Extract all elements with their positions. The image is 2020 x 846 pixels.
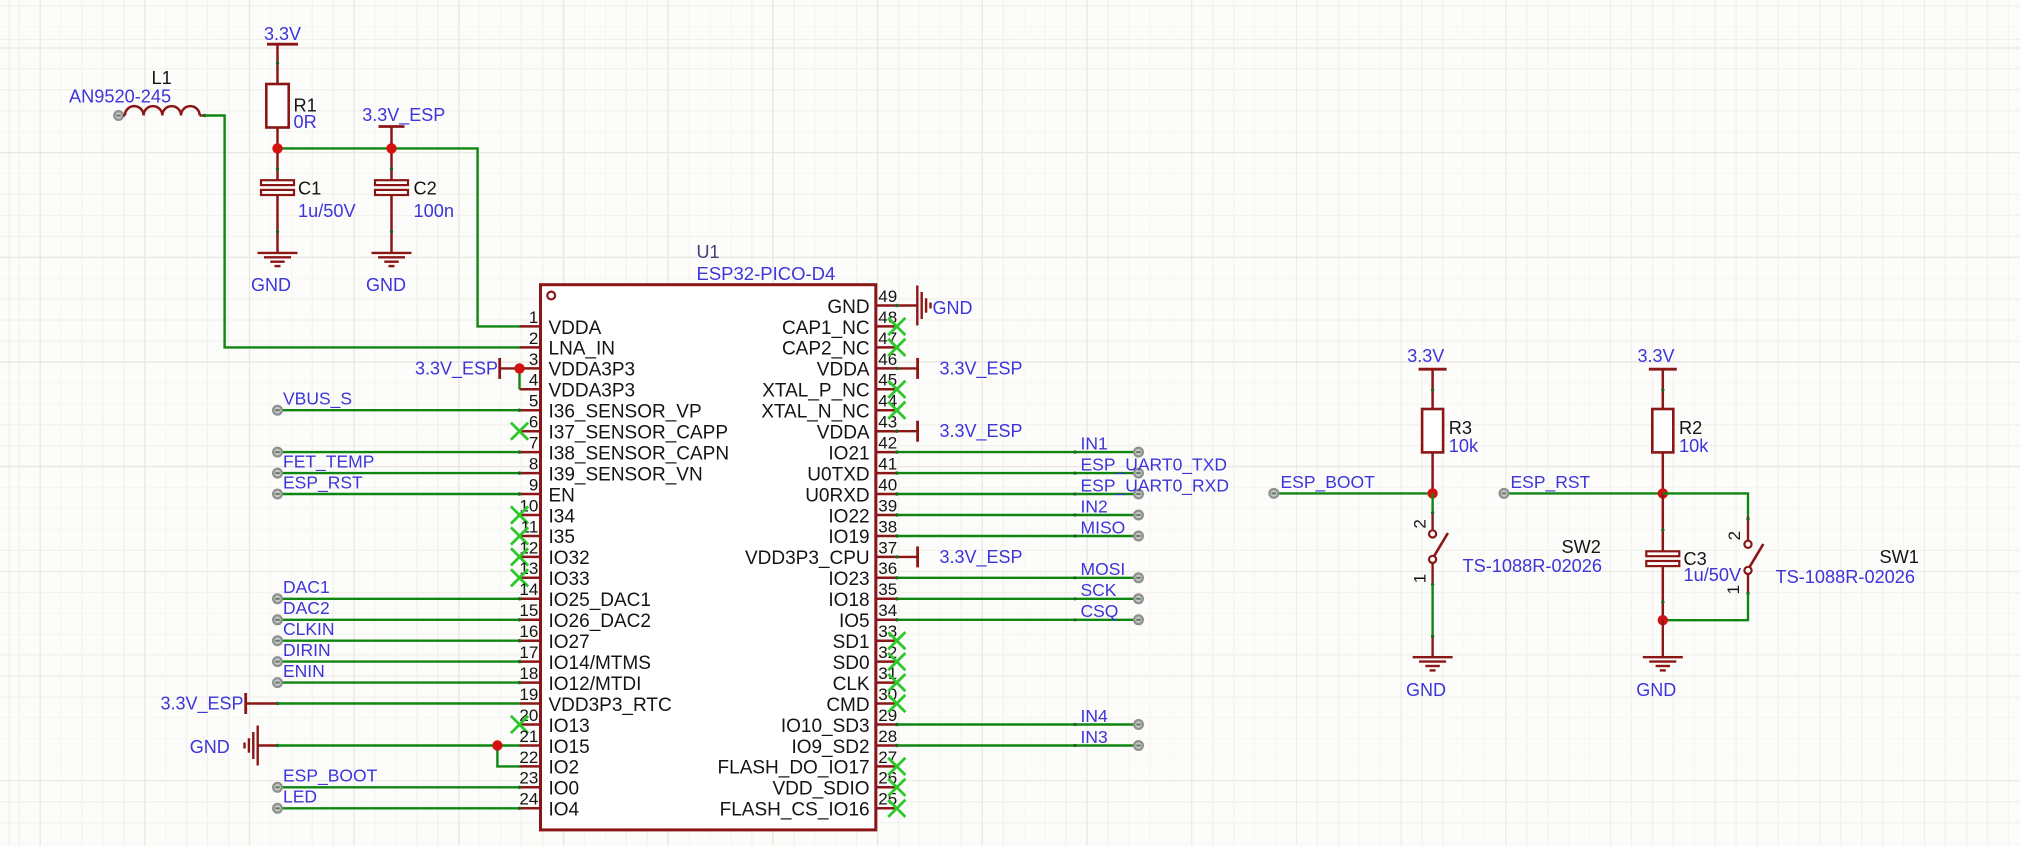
svg-text:0R: 0R — [294, 112, 317, 132]
net label DIRIN — [283, 640, 331, 660]
net label IN3 — [1081, 727, 1108, 747]
svg-text:TS-1088R-02026: TS-1088R-02026 — [1776, 567, 1916, 587]
svg-text:IO18: IO18 — [828, 590, 869, 611]
U1 pin 16 IO27 — [519, 622, 589, 653]
net label ESP_RST — [283, 472, 363, 493]
IC U1 body — [541, 285, 876, 830]
junction node (C3/SW1 bottom) — [1658, 615, 1668, 625]
svg-text:AN9520-245: AN9520-245 — [69, 87, 171, 107]
svg-text:VDD3P3_RTC: VDD3P3_RTC — [549, 695, 672, 716]
wire CSQ (pin 34) — [895, 615, 1143, 624]
net label CLKIN — [283, 619, 335, 639]
U1 pin 46 VDDA — [817, 350, 897, 381]
inductor L1 — [69, 68, 206, 120]
no-connect pin 27 — [888, 758, 905, 775]
wire CLKIN (pin 16) — [273, 636, 521, 645]
power flag 3.3V (R1 top) — [264, 24, 301, 84]
svg-text:DIRIN: DIRIN — [283, 640, 331, 660]
svg-text:FLASH_DO_IO17: FLASH_DO_IO17 — [718, 758, 870, 779]
svg-text:DAC1: DAC1 — [283, 577, 330, 597]
no-connect pin 20 — [511, 716, 528, 733]
U1 pin 43 VDDA — [817, 413, 897, 444]
svg-text:IO9_SD2: IO9_SD2 — [791, 737, 869, 758]
no-connect pin 13 — [511, 569, 528, 586]
wire DAC2 (pin 15) — [273, 615, 521, 624]
no-connect pin 25 — [888, 800, 905, 817]
svg-text:ESP_BOOT: ESP_BOOT — [283, 766, 378, 787]
SW1 designator — [1880, 547, 1919, 567]
wire SW1 to ground node — [1663, 593, 1748, 620]
svg-text:CSQ: CSQ — [1081, 601, 1119, 621]
wire DAC1 (pin 14) — [273, 594, 521, 603]
wire GND branch to pin 22 — [497, 746, 519, 767]
ground flag GND (pin 21) — [190, 726, 280, 766]
svg-text:3.3V_ESP: 3.3V_ESP — [415, 358, 498, 379]
svg-text:VDDA: VDDA — [549, 318, 602, 339]
U1 pin 7 I38_SENSOR_CAPN — [520, 434, 730, 465]
svg-text:CLK: CLK — [833, 674, 870, 695]
U1 pin 47 CAP2_NC — [782, 329, 897, 360]
resistor R2 — [1652, 409, 1709, 456]
wire ESP_BOOT (pin 23) — [273, 783, 521, 792]
U1 part name ESP32-PICO-D4 — [697, 263, 836, 284]
power flag 3.3V (R2 top) — [1637, 346, 1676, 409]
svg-text:3.3V_ESP: 3.3V_ESP — [940, 547, 1023, 568]
power flag 3.3V_ESP (pin 37) — [895, 546, 1022, 568]
svg-text:IO21: IO21 — [828, 443, 869, 464]
net label ENIN — [283, 661, 325, 681]
capacitor C1 — [261, 148, 357, 253]
net label IN4 — [1081, 706, 1109, 726]
svg-text:2: 2 — [1411, 519, 1430, 528]
U1 pin 38 IO19 — [828, 517, 897, 548]
U1 pin 12 IO32 — [519, 538, 589, 569]
svg-text:GND: GND — [1406, 680, 1446, 700]
wire VBUS_S (pin 5) — [273, 406, 521, 415]
svg-text:SD1: SD1 — [833, 632, 870, 653]
svg-text:EN: EN — [549, 485, 575, 506]
svg-text:CAP1_NC: CAP1_NC — [782, 318, 870, 339]
svg-text:GND: GND — [251, 275, 291, 295]
svg-text:L1: L1 — [152, 68, 172, 88]
svg-text:FLASH_CS_IO16: FLASH_CS_IO16 — [720, 800, 870, 821]
svg-text:IO4: IO4 — [549, 800, 580, 821]
wire R2 to node — [1662, 452, 1665, 493]
wire pin 7 — [273, 448, 521, 457]
svg-text:19: 19 — [519, 685, 538, 704]
U1 pin 41 U0TXD — [807, 455, 897, 486]
net label DAC2 — [283, 598, 330, 618]
svg-text:9: 9 — [529, 475, 538, 494]
U1 pin 18 IO12/MTDI — [519, 664, 641, 695]
svg-text:VDD3P3_CPU: VDD3P3_CPU — [745, 548, 870, 569]
wire DIRIN (pin 17) — [273, 657, 521, 666]
wire LED (pin 24) — [273, 804, 521, 813]
wire SW2 to ground — [1431, 584, 1434, 657]
wire IN3 (pin 28) — [895, 741, 1143, 750]
U1 pin 39 IO22 — [828, 496, 897, 527]
svg-text:ESP_UART0_TXD: ESP_UART0_TXD — [1081, 455, 1228, 476]
svg-text:14: 14 — [519, 580, 538, 599]
svg-text:18: 18 — [519, 664, 538, 683]
wire MISO (pin 38) — [895, 532, 1143, 541]
SW1 part TS-1088R-02026 — [1776, 567, 1916, 587]
svg-text:2: 2 — [529, 329, 538, 348]
no-connect pin 30 — [888, 695, 905, 712]
svg-text:VDDA3P3: VDDA3P3 — [549, 381, 636, 402]
svg-text:1: 1 — [1724, 585, 1743, 594]
U1 pin 35 IO18 — [828, 580, 897, 611]
svg-text:IO22: IO22 — [828, 506, 869, 527]
svg-text:I36_SENSOR_VP: I36_SENSOR_VP — [549, 402, 702, 423]
svg-text:100n: 100n — [414, 201, 454, 221]
svg-text:38: 38 — [878, 517, 897, 536]
svg-text:17: 17 — [519, 643, 538, 662]
svg-text:GND: GND — [1636, 680, 1676, 700]
svg-text:VDDA3P3: VDDA3P3 — [549, 360, 636, 381]
U1 pin 23 IO0 — [519, 769, 579, 800]
svg-text:GND: GND — [366, 275, 406, 295]
svg-text:IN4: IN4 — [1081, 706, 1109, 726]
svg-text:10k: 10k — [1449, 436, 1479, 456]
svg-text:GND: GND — [190, 737, 230, 757]
svg-text:35: 35 — [878, 580, 897, 599]
svg-text:C2: C2 — [414, 179, 437, 199]
svg-text:CLKIN: CLKIN — [283, 619, 335, 639]
switch SW2 — [1411, 493, 1448, 586]
ground (SW1/C3) — [1636, 657, 1683, 700]
no-connect pin 10 — [511, 506, 528, 523]
U1 pin 28 IO9_SD2 — [791, 727, 897, 758]
wire ESP_UART0_TXD (pin 41) — [895, 469, 1143, 478]
svg-text:VDD_SDIO: VDD_SDIO — [772, 779, 869, 800]
capacitor C2 — [375, 148, 454, 253]
U1 pin 22 IO2 — [519, 748, 579, 779]
SW2 part TS-1088R-02026 — [1463, 556, 1603, 576]
svg-text:22: 22 — [519, 748, 538, 767]
wire node to SW1 — [1663, 493, 1748, 515]
svg-text:IO32: IO32 — [549, 548, 590, 569]
wire IN4 (pin 29) — [895, 720, 1143, 729]
net label ESP_RST — [1511, 472, 1591, 493]
svg-text:SD0: SD0 — [833, 653, 870, 674]
wire ESP_UART0_RXD (pin 40) — [895, 490, 1143, 499]
svg-text:ESP_UART0_RXD: ESP_UART0_RXD — [1081, 475, 1230, 496]
svg-text:5: 5 — [529, 392, 538, 411]
capacitor C3 — [1646, 493, 1742, 620]
U1 pin 13 IO33 — [519, 559, 589, 590]
svg-text:I37_SENSOR_CAPP: I37_SENSOR_CAPP — [549, 423, 729, 444]
svg-text:37: 37 — [878, 538, 897, 557]
U1 pin 5 I36_SENSOR_VP — [520, 392, 702, 423]
svg-text:ESP32-PICO-D4: ESP32-PICO-D4 — [697, 263, 836, 284]
svg-text:23: 23 — [519, 769, 538, 788]
U1 pin 45 XTAL_P_NC — [762, 371, 897, 402]
svg-text:SW2: SW2 — [1562, 537, 1601, 557]
svg-text:1u/50V: 1u/50V — [298, 201, 357, 221]
svg-text:IO14/MTMS: IO14/MTMS — [549, 653, 651, 674]
svg-text:24: 24 — [519, 790, 538, 809]
svg-text:XTAL_N_NC: XTAL_N_NC — [761, 402, 869, 423]
svg-text:MISO: MISO — [1081, 517, 1126, 537]
wire R1 bottom to node — [276, 128, 279, 149]
svg-text:3.3V: 3.3V — [1407, 346, 1444, 366]
wire L1 to U1 pin 2 (LNA_IN) — [205, 116, 520, 348]
net label SCK — [1081, 580, 1117, 600]
svg-text:TS-1088R-02026: TS-1088R-02026 — [1463, 556, 1603, 576]
wire GND to pin 21 — [278, 744, 520, 746]
svg-text:VDDA: VDDA — [817, 423, 870, 444]
svg-text:ESP_RST: ESP_RST — [1511, 472, 1591, 493]
svg-text:IO0: IO0 — [549, 779, 580, 800]
no-connect pin 31 — [888, 674, 905, 691]
svg-text:29: 29 — [878, 706, 897, 725]
svg-text:ESP_BOOT: ESP_BOOT — [1281, 472, 1376, 493]
wire ESP_BOOT — [1269, 489, 1432, 498]
svg-text:3.3V_ESP: 3.3V_ESP — [160, 694, 243, 715]
svg-text:46: 46 — [878, 350, 897, 369]
net label DAC1 — [283, 577, 330, 597]
U1 pin 2 LNA_IN — [520, 329, 616, 360]
svg-text:GND: GND — [827, 297, 869, 318]
wire node to U1 pin 1 (VDDA) — [278, 148, 520, 326]
svg-text:I34: I34 — [549, 506, 576, 527]
no-connect pin 32 — [888, 653, 905, 670]
svg-text:16: 16 — [519, 622, 538, 641]
svg-text:I39_SENSOR_VN: I39_SENSOR_VN — [549, 464, 703, 485]
svg-text:IO12/MTDI: IO12/MTDI — [549, 674, 642, 695]
net label ESP_UART0_RXD — [1081, 475, 1230, 496]
svg-text:U0TXD: U0TXD — [807, 464, 869, 485]
U1 pin 20 IO13 — [519, 706, 589, 737]
svg-text:3.3V: 3.3V — [264, 24, 301, 44]
U1 pin 48 CAP1_NC — [782, 308, 897, 339]
wire node to ground — [1662, 620, 1664, 657]
U1 pin 14 IO25_DAC1 — [519, 580, 651, 611]
svg-text:1: 1 — [529, 308, 538, 327]
svg-text:3: 3 — [529, 350, 538, 369]
svg-text:41: 41 — [878, 455, 897, 474]
svg-text:U0RXD: U0RXD — [805, 485, 869, 506]
svg-text:ESP_RST: ESP_RST — [283, 472, 363, 493]
no-connect pin 33 — [888, 632, 905, 649]
svg-text:3.3V_ESP: 3.3V_ESP — [940, 421, 1023, 442]
SW2 designator — [1562, 537, 1601, 557]
svg-text:CMD: CMD — [826, 695, 869, 716]
svg-text:6: 6 — [529, 413, 538, 432]
net label LED — [283, 787, 317, 807]
net label VBUS_S — [283, 389, 352, 410]
U1 pin 15 IO26_DAC2 — [519, 601, 651, 632]
svg-text:3.3V_ESP: 3.3V_ESP — [940, 358, 1023, 379]
no-connect pin 44 — [888, 402, 905, 419]
svg-text:8: 8 — [529, 455, 538, 474]
svg-text:ENIN: ENIN — [283, 661, 325, 681]
U1 pin 34 IO5 — [839, 601, 897, 632]
resistor R3 — [1422, 409, 1479, 456]
U1 pin 3 VDDA3P3 — [520, 350, 636, 381]
no-connect pin 47 — [888, 339, 905, 356]
no-connect pin 12 — [511, 548, 528, 565]
svg-text:3.3V_ESP: 3.3V_ESP — [362, 105, 445, 126]
svg-text:IO25_DAC1: IO25_DAC1 — [549, 590, 651, 611]
svg-text:C1: C1 — [298, 179, 321, 199]
no-connect pin 26 — [888, 779, 905, 796]
svg-text:7: 7 — [529, 434, 538, 453]
U1 pin 32 SD0 — [833, 643, 898, 674]
wire pin3 node to pin 4 — [518, 368, 520, 389]
U1 pin 44 XTAL_N_NC — [761, 392, 897, 423]
wire IN1 (pin 42) — [895, 448, 1143, 457]
svg-text:10k: 10k — [1679, 436, 1709, 456]
net label ESP_BOOT — [1281, 472, 1376, 493]
U1 pin 27 FLASH_DO_IO17 — [718, 748, 898, 779]
U1 pin 1 VDDA — [520, 308, 602, 339]
junction node (R2/C3/SW1) — [1658, 488, 1668, 498]
U1 pin 8 I39_SENSOR_VN — [520, 455, 703, 486]
svg-text:IO10_SD3: IO10_SD3 — [781, 716, 870, 737]
ground (C1) — [251, 253, 298, 295]
svg-text:34: 34 — [878, 601, 897, 620]
U1 pin 9 EN — [520, 475, 575, 506]
svg-text:IO26_DAC2: IO26_DAC2 — [549, 611, 651, 632]
U1 pin 49 GND — [827, 287, 897, 318]
junction node (pins 3/4) — [514, 363, 524, 373]
ground (SW2) — [1406, 657, 1453, 700]
U1 pin 29 IO10_SD3 — [781, 706, 897, 737]
no-connect pin 11 — [511, 527, 528, 544]
power flag 3.3V_ESP (pin 46) — [895, 358, 1022, 380]
svg-text:R2: R2 — [1679, 418, 1702, 438]
svg-text:GND: GND — [933, 298, 973, 318]
wire ESP_RST — [1500, 489, 1663, 498]
svg-text:IO15: IO15 — [549, 737, 590, 758]
U1 pin 19 VDD3P3_RTC — [519, 685, 671, 716]
net label MOSI — [1081, 559, 1126, 579]
U1 pin 4 VDDA3P3 — [520, 371, 636, 402]
svg-text:1: 1 — [1411, 574, 1430, 583]
net label FET_TEMP — [283, 452, 374, 473]
svg-text:1u/50V: 1u/50V — [1684, 565, 1743, 585]
svg-text:42: 42 — [878, 434, 897, 453]
wire pin 19 — [278, 702, 520, 704]
net label ESP_UART0_TXD — [1081, 455, 1228, 476]
U1 pin 26 VDD_SDIO — [772, 769, 897, 800]
U1 pin 31 CLK — [833, 664, 898, 695]
net label ESP_BOOT — [283, 766, 378, 787]
power flag 3.3V_ESP (pin 3) — [415, 358, 520, 380]
net label MISO — [1081, 517, 1126, 537]
wire ENIN (pin 18) — [273, 678, 521, 687]
wire R3 to node — [1431, 452, 1434, 493]
svg-text:IN1: IN1 — [1081, 434, 1108, 454]
svg-text:IO5: IO5 — [839, 611, 870, 632]
svg-text:IO19: IO19 — [828, 527, 869, 548]
svg-text:VDDA: VDDA — [817, 360, 870, 381]
wire FET_TEMP (pin 8) — [273, 469, 521, 478]
svg-text:U1: U1 — [697, 242, 720, 262]
svg-text:I35: I35 — [549, 527, 575, 548]
U1 pin 40 U0RXD — [805, 475, 897, 506]
resistor R1 — [266, 84, 316, 132]
svg-text:DAC2: DAC2 — [283, 598, 330, 618]
svg-text:IO27: IO27 — [549, 632, 590, 653]
U1 designator — [697, 242, 720, 262]
U1 pin 25 FLASH_CS_IO16 — [720, 790, 898, 821]
svg-text:4: 4 — [529, 371, 538, 390]
svg-text:R3: R3 — [1449, 418, 1472, 438]
U1 pin 17 IO14/MTMS — [519, 643, 651, 674]
ground (C2) — [366, 253, 412, 295]
svg-text:XTAL_P_NC: XTAL_P_NC — [762, 381, 869, 402]
svg-text:49: 49 — [878, 287, 897, 306]
wire SCK (pin 35) — [895, 594, 1143, 603]
no-connect pin 45 — [888, 381, 905, 398]
svg-text:21: 21 — [519, 727, 538, 746]
wire ESP_RST (pin 9) — [273, 490, 521, 499]
svg-text:VBUS_S: VBUS_S — [283, 389, 352, 410]
svg-text:LED: LED — [283, 787, 317, 807]
no-connect pin 48 — [888, 318, 905, 335]
svg-text:28: 28 — [878, 727, 897, 746]
wire IN2 (pin 39) — [895, 511, 1143, 520]
ground flag GND (pin 49) — [895, 286, 972, 326]
no-connect pin 6 — [511, 423, 528, 440]
junction node (R1/C1) — [272, 143, 282, 153]
U1 pin 21 IO15 — [519, 727, 589, 758]
U1 pin 11 I35 — [520, 517, 575, 548]
power flag 3.3V_ESP (pin 43) — [895, 421, 1022, 443]
svg-text:IO13: IO13 — [549, 716, 590, 737]
svg-text:2: 2 — [1725, 531, 1744, 540]
svg-text:IO33: IO33 — [549, 569, 590, 590]
svg-text:FET_TEMP: FET_TEMP — [283, 452, 374, 473]
U1 pin 36 IO23 — [828, 559, 897, 590]
svg-text:40: 40 — [878, 475, 897, 494]
svg-text:SW1: SW1 — [1880, 547, 1919, 567]
svg-text:IO2: IO2 — [549, 758, 580, 779]
U1 pin 30 CMD — [826, 685, 897, 716]
svg-text:LNA_IN: LNA_IN — [549, 339, 616, 360]
svg-text:IN2: IN2 — [1081, 496, 1108, 516]
svg-text:15: 15 — [519, 601, 538, 620]
net label CSQ — [1081, 601, 1119, 621]
svg-text:3.3V: 3.3V — [1637, 346, 1674, 366]
U1 pin 42 IO21 — [828, 434, 897, 465]
power flag 3.3V_ESP (pin 19) — [160, 693, 279, 715]
svg-text:43: 43 — [878, 413, 897, 432]
U1 pin 24 IO4 — [519, 790, 579, 821]
svg-text:IO23: IO23 — [828, 569, 869, 590]
net label IN1 — [1081, 434, 1108, 454]
power flag 3.3V (R3 top) — [1407, 346, 1446, 409]
junction node (pin 21/22) — [492, 740, 502, 750]
U1 pin 33 SD1 — [833, 622, 898, 653]
wire MOSI (pin 36) — [895, 573, 1143, 582]
svg-text:I38_SENSOR_CAPN: I38_SENSOR_CAPN — [549, 443, 730, 464]
junction node (C2/3.3V_ESP) — [386, 143, 396, 153]
U1 pin 10 I34 — [519, 496, 575, 527]
U1 pin 6 I37_SENSOR_CAPP — [520, 413, 729, 444]
switch SW1 — [1724, 516, 1763, 595]
svg-text:SCK: SCK — [1081, 580, 1117, 600]
svg-text:MOSI: MOSI — [1081, 559, 1126, 579]
svg-text:39: 39 — [878, 496, 897, 515]
svg-text:CAP2_NC: CAP2_NC — [782, 339, 870, 360]
power flag 3.3V_ESP (C2 top) — [362, 105, 445, 149]
svg-text:36: 36 — [878, 559, 897, 578]
junction node (R3/SW2) — [1427, 488, 1437, 498]
